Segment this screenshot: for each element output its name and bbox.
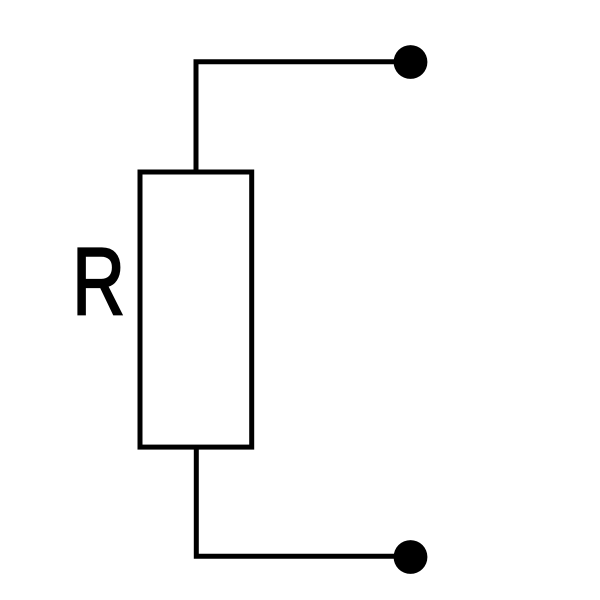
svg-text:R: R: [72, 229, 125, 336]
